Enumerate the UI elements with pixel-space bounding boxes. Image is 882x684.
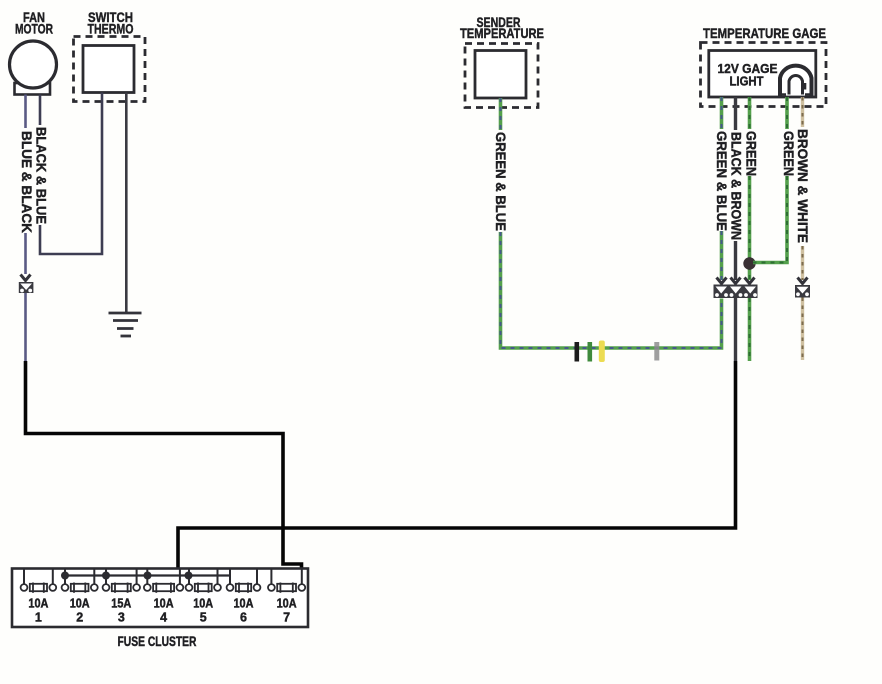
junction dot fuse 5 xyxy=(185,572,193,580)
wire: blue & black lower segment xyxy=(24,293,27,361)
connector X1 (fan motor single-way) xyxy=(19,282,34,293)
wire: gage lead 5 mid segment xyxy=(801,246,804,280)
connector arrow on gage wire 1 xyxy=(717,278,727,284)
fan motor M1 xyxy=(10,41,57,95)
svg-text:1: 1 xyxy=(35,611,42,625)
svg-text:3: 3 xyxy=(118,611,125,625)
svg-text:6: 6 xyxy=(240,611,247,625)
wire: black feed from fan motor to fuse cluster xyxy=(26,361,302,585)
wire marker: green band xyxy=(588,342,593,362)
gage lamp contact tab xyxy=(803,83,807,90)
svg-text:15A: 15A xyxy=(111,597,131,611)
svg-text:THERMO: THERMO xyxy=(88,21,134,37)
switch thermo S1 enclosure (dashed) xyxy=(74,37,146,102)
wire: gage lead 3 down through junction xyxy=(748,176,752,280)
svg-text:10A: 10A xyxy=(277,597,297,611)
wire: fan motor right lead (black & blue) upper segment xyxy=(39,95,42,126)
wire marker: grey band xyxy=(654,342,659,361)
wire: sender lead green & blue upper segment xyxy=(499,98,503,130)
ground G1 xyxy=(109,313,142,336)
svg-text:TEMPERATURE: TEMPERATURE xyxy=(460,25,544,41)
svg-text:FUSE CLUSTER: FUSE CLUSTER xyxy=(118,633,197,649)
wire: gage lead 3 green upper segment xyxy=(748,97,752,129)
connector arrow on blue & black wire xyxy=(21,275,31,281)
svg-text:TEMPERATURE GAGE: TEMPERATURE GAGE xyxy=(703,25,826,41)
wire: gage lead 5 brown & white upper segment xyxy=(801,97,804,127)
wire: gage lead 2 lower segment xyxy=(734,241,737,280)
svg-text:10A: 10A xyxy=(28,597,48,611)
gage lamp symbol xyxy=(779,66,813,97)
wire: gage wire 2 below connector xyxy=(734,298,737,361)
connector arrow on gage wire 2 xyxy=(731,278,741,284)
svg-text:GREEN & BLUE: GREEN & BLUE xyxy=(493,132,509,231)
junction node (green wires) xyxy=(743,257,755,269)
junction dot fuse 3 xyxy=(102,572,110,580)
sender temperature unit xyxy=(475,51,526,99)
connector X3 (brown & white single-way) xyxy=(795,285,810,298)
wire: gage lead 4 jumper to junction xyxy=(753,176,787,263)
fuse F4 (10A) xyxy=(144,570,183,593)
connector arrow on gage wire 3 xyxy=(745,278,755,284)
wire: green & blue run from sender to gage connector xyxy=(501,232,722,348)
fuse cluster box xyxy=(12,569,308,628)
svg-text:7: 7 xyxy=(283,611,290,625)
svg-text:BLACK & BLUE: BLACK & BLUE xyxy=(34,127,50,224)
wire: gage lead 1 lower segment xyxy=(720,231,724,280)
fuse F1 (10A) xyxy=(21,570,57,593)
svg-text:10A: 10A xyxy=(70,597,90,611)
wire: gage lead 5 below connector xyxy=(801,298,804,361)
wire: switch thermo right lead to ground xyxy=(125,93,128,313)
temperature gage enclosure (dashed) xyxy=(701,43,827,107)
svg-text:BROWN & WHITE: BROWN & WHITE xyxy=(795,129,811,243)
fuse F6 (10A) xyxy=(227,570,261,593)
wire: black feed from gage to fuse cluster xyxy=(178,361,736,576)
wire marker: yellow band xyxy=(599,341,605,363)
fuse F2 (10A) xyxy=(62,570,98,593)
svg-text:LIGHT: LIGHT xyxy=(730,74,764,89)
wire: gage lead 2 black & brown upper segment xyxy=(734,97,737,130)
wire: gage lead 4 green upper segment xyxy=(785,97,789,129)
wire: black & blue jog to switch thermo left lead xyxy=(40,93,102,255)
fuse F5 (10A) xyxy=(186,570,221,593)
bus wire inside fuse cluster xyxy=(64,574,229,576)
svg-text:10A: 10A xyxy=(154,597,174,611)
fuse F7 (10A) xyxy=(268,570,305,593)
wire: gage wire 3 below connector (stub) xyxy=(748,298,752,361)
sender temperature enclosure (dashed) xyxy=(465,44,538,108)
svg-text:10A: 10A xyxy=(193,597,213,611)
connector X2 (gage three-way) xyxy=(714,285,758,299)
wire: blue & black mid segment xyxy=(24,233,27,274)
temperature gage unit xyxy=(709,51,816,98)
svg-text:4: 4 xyxy=(160,611,167,625)
svg-text:GREEN & BLUE: GREEN & BLUE xyxy=(714,131,730,231)
wire marker: black band xyxy=(575,342,580,362)
wire: gage lead 1 green & blue upper segment xyxy=(720,97,724,129)
connector arrow on gage wire 5 xyxy=(798,278,808,284)
wire: fan motor left lead (blue & black) upper segment xyxy=(24,95,27,129)
svg-text:GREEN: GREEN xyxy=(781,131,797,176)
svg-text:10A: 10A xyxy=(234,597,254,611)
svg-text:MOTOR: MOTOR xyxy=(15,21,53,37)
svg-text:5: 5 xyxy=(200,611,207,625)
junction dot fuse 2 xyxy=(61,572,69,580)
svg-text:BLACK & BROWN: BLACK & BROWN xyxy=(729,132,745,240)
svg-text:2: 2 xyxy=(76,611,83,625)
switch thermo S1 xyxy=(83,46,134,93)
junction dot fuse 4 xyxy=(144,572,152,580)
fuse F3 (15A) xyxy=(103,570,140,593)
svg-text:GREEN: GREEN xyxy=(744,131,760,176)
svg-text:BLUE & BLACK: BLUE & BLACK xyxy=(19,131,35,233)
